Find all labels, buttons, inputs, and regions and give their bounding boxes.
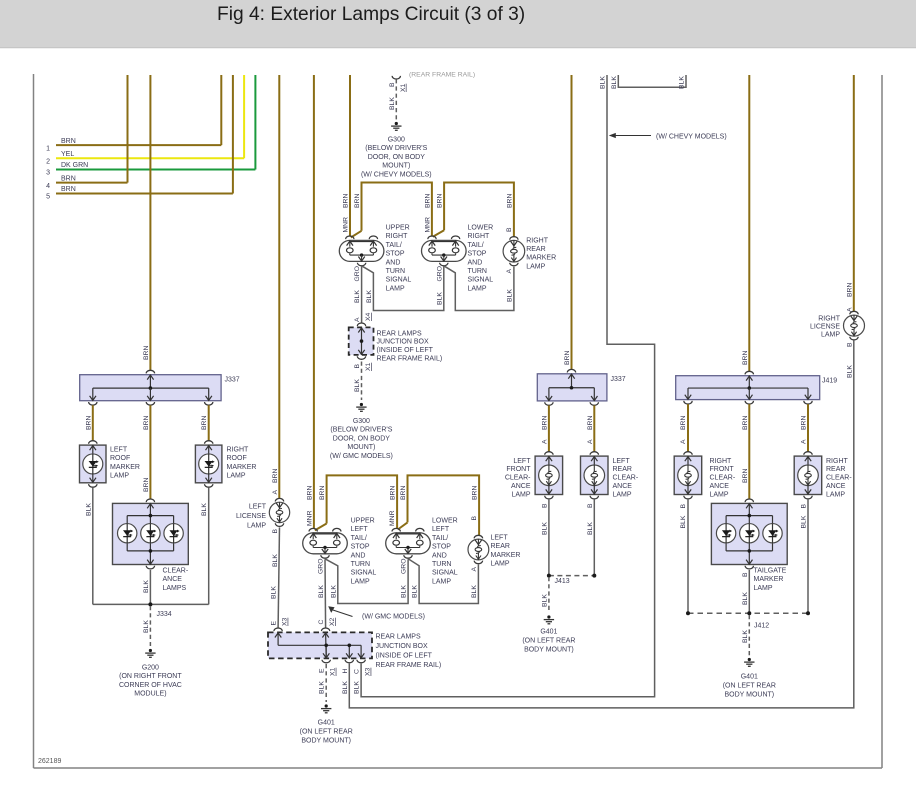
wire BLK dashed J413 to G401	[548, 577, 550, 613]
tail lamp upper right	[339, 240, 384, 261]
svg-text:TURN: TURN	[386, 268, 405, 275]
svg-text:H: H	[342, 669, 349, 674]
svg-text:BRN: BRN	[472, 486, 479, 500]
svg-text:BRN: BRN	[680, 416, 687, 430]
svg-text:STOP: STOP	[432, 544, 451, 551]
svg-text:BRN: BRN	[506, 194, 513, 208]
wire BRN jumper bracket upper-to-lower right tail lamp	[362, 183, 432, 237]
svg-text:LICENSE: LICENSE	[810, 324, 840, 331]
svg-text:REAR LAMPS: REAR LAMPS	[376, 634, 421, 641]
svg-text:J337: J337	[611, 376, 626, 383]
svg-text:B: B	[389, 82, 396, 87]
svg-text:A: A	[680, 439, 687, 444]
svg-text:B: B	[354, 364, 361, 369]
svg-text:LEFT: LEFT	[491, 535, 509, 542]
svg-text:G401: G401	[318, 720, 335, 727]
svg-text:MNR: MNR	[306, 510, 313, 526]
svg-text:BLK: BLK	[318, 585, 325, 598]
tailgate marker lamp block	[711, 503, 787, 564]
svg-text:BRN: BRN	[424, 194, 431, 208]
svg-text:MOUNT): MOUNT)	[382, 163, 410, 170]
right front clearance lamp	[674, 456, 702, 494]
wire BRN trunk to upper right tail lamp	[349, 75, 351, 237]
svg-text:BLK: BLK	[342, 681, 349, 694]
svg-text:BRN: BRN	[272, 469, 279, 483]
svg-text:STOP: STOP	[468, 251, 487, 258]
wire BRN jumper bracket upper-to-lower left tail lamp	[327, 475, 398, 528]
svg-text:BLK: BLK	[801, 515, 808, 528]
svg-text:BLK: BLK	[389, 97, 396, 110]
svg-text:BLK: BLK	[611, 76, 618, 89]
svg-text:TURN: TURN	[351, 561, 370, 568]
wire BRN trunk to left license lamp	[278, 75, 280, 499]
svg-text:LEFT: LEFT	[432, 526, 450, 533]
svg-text:BRN: BRN	[354, 194, 361, 208]
svg-text:B: B	[801, 504, 808, 509]
svg-text:TAIL/: TAIL/	[351, 535, 367, 542]
svg-text:B: B	[506, 227, 513, 232]
svg-text:REAR: REAR	[526, 246, 545, 253]
svg-text:AND: AND	[351, 552, 366, 559]
svg-text:BLK: BLK	[143, 620, 150, 633]
svg-text:BRN: BRN	[541, 416, 548, 430]
svg-text:B: B	[471, 516, 478, 521]
svg-text:BLK: BLK	[401, 585, 408, 598]
svg-text:LEFT: LEFT	[249, 504, 267, 511]
svg-text:RIGHT: RIGHT	[468, 233, 491, 240]
svg-text:RIGHT: RIGHT	[818, 316, 841, 323]
svg-text:BRN: BRN	[61, 138, 76, 145]
svg-text:SIGNAL: SIGNAL	[351, 570, 377, 577]
wire BLK tailgate block to J412	[748, 570, 750, 613]
junction J412 dashed bus	[688, 612, 808, 614]
clearance lamps block	[113, 503, 189, 564]
svg-text:TURN: TURN	[432, 561, 451, 568]
junction box rear lamps gmc	[274, 628, 282, 631]
wire BLK jumper lower left lamp to marker ground	[408, 559, 478, 604]
svg-text:B: B	[272, 529, 279, 534]
svg-text:FRONT: FRONT	[506, 466, 531, 473]
svg-text:BRN: BRN	[390, 486, 397, 500]
svg-text:(W/ GMC MODELS): (W/ GMC MODELS)	[330, 453, 393, 460]
svg-text:B: B	[846, 342, 853, 347]
svg-text:BODY MOUNT): BODY MOUNT)	[301, 738, 351, 745]
svg-text:LAMP: LAMP	[710, 491, 729, 498]
svg-text:ANCE: ANCE	[511, 483, 531, 490]
right license lamp	[844, 315, 865, 336]
svg-text:STOP: STOP	[386, 251, 405, 258]
svg-text:CLEAR-: CLEAR-	[710, 475, 736, 482]
svg-text:TAIL/: TAIL/	[468, 242, 484, 249]
svg-text:G300: G300	[388, 137, 405, 144]
svg-text:DOOR, ON BODY: DOOR, ON BODY	[368, 154, 426, 161]
tail lamp lower right	[422, 240, 467, 261]
ground G401 left	[547, 615, 550, 618]
svg-text:MODULE): MODULE)	[134, 691, 166, 698]
svg-text:GRO: GRO	[401, 559, 408, 574]
svg-text:BRN: BRN	[742, 351, 749, 365]
svg-text:MARKER: MARKER	[491, 552, 521, 559]
svg-text:BRN: BRN	[61, 186, 76, 193]
wire BLK chevy ground riser (junction box C to top)	[361, 75, 654, 697]
svg-text:LAMP: LAMP	[351, 578, 370, 585]
svg-text:(W/ CHEVY MODELS): (W/ CHEVY MODELS)	[656, 133, 727, 140]
ground G200	[149, 649, 152, 652]
svg-text:REAR FRAME RAIL): REAR FRAME RAIL)	[377, 356, 443, 363]
svg-text:BLK: BLK	[680, 515, 687, 528]
wire BRN trunk to J419	[748, 75, 750, 372]
svg-text:LAMP: LAMP	[247, 523, 266, 530]
svg-text:TAIL/: TAIL/	[386, 242, 402, 249]
svg-text:LEFT: LEFT	[351, 526, 369, 533]
ground G401 right	[748, 658, 751, 661]
ground G300 gmc	[360, 403, 363, 406]
svg-text:BLK: BLK	[85, 503, 92, 516]
svg-text:(ON RIGHT FRONT: (ON RIGHT FRONT	[119, 673, 182, 680]
svg-text:BRN: BRN	[742, 469, 749, 483]
svg-text:ROOF: ROOF	[110, 455, 130, 462]
diagram border frame	[33, 74, 35, 768]
wire BLK jumper upper-to-lower left lamp ground	[325, 559, 408, 604]
right roof marker lamp	[195, 445, 222, 483]
svg-text:REAR: REAR	[826, 466, 845, 473]
svg-text:Fig 4: Exterior Lamps Circuit: Fig 4: Exterior Lamps Circuit (3 of 3)	[217, 4, 525, 25]
svg-text:BRN: BRN	[587, 416, 594, 430]
junction box rear lamps chevy	[357, 323, 365, 326]
svg-text:BRN: BRN	[143, 478, 150, 492]
w/ chevy models note arrow	[609, 133, 616, 138]
wire pin 1 BRN horizontal+vertical	[56, 144, 221, 146]
svg-text:LEFT: LEFT	[613, 458, 631, 465]
svg-text:BLK: BLK	[600, 76, 607, 89]
wires BLK clearance lamps to J413	[548, 499, 550, 576]
svg-text:BLK: BLK	[679, 76, 686, 89]
junction J334 bus	[93, 603, 209, 605]
splice J337 middle	[537, 374, 607, 401]
svg-text:RIGHT: RIGHT	[386, 233, 409, 240]
svg-text:BRN: BRN	[143, 346, 150, 360]
wires BRN J337 outputs	[92, 405, 94, 441]
svg-text:G200: G200	[142, 665, 159, 672]
svg-text:BRN: BRN	[742, 416, 749, 430]
wire BRN trunk to J337 left	[149, 75, 151, 370]
wire pin 3 DK GRN horizontal+vertical	[56, 169, 255, 171]
svg-text:MARKER: MARKER	[754, 576, 784, 583]
svg-text:AND: AND	[386, 259, 401, 266]
svg-text:LAMP: LAMP	[227, 473, 246, 480]
svg-text:BRN: BRN	[400, 486, 407, 500]
wire BLK jumper lower lamp to marker ground	[444, 266, 514, 311]
svg-text:LEFT: LEFT	[513, 458, 531, 465]
svg-text:J334: J334	[157, 611, 172, 618]
svg-text:C: C	[354, 669, 361, 674]
svg-text:G300: G300	[353, 418, 370, 425]
left rear clearance lamp	[581, 456, 609, 494]
svg-text:MARKER: MARKER	[110, 464, 140, 471]
svg-text:A: A	[541, 439, 548, 444]
svg-text:RIGHT: RIGHT	[826, 458, 849, 465]
svg-text:(REAR FRAME RAIL): (REAR FRAME RAIL)	[409, 72, 475, 79]
svg-text:C: C	[318, 620, 325, 625]
svg-text:BODY MOUNT): BODY MOUNT)	[524, 647, 574, 654]
tail lamp lower left	[386, 533, 431, 554]
svg-text:BLK: BLK	[330, 585, 337, 598]
svg-text:CLEAR-: CLEAR-	[163, 568, 189, 575]
svg-text:BLK: BLK	[354, 379, 361, 392]
svg-text:LOWER: LOWER	[468, 225, 494, 232]
svg-text:REAR: REAR	[613, 466, 632, 473]
svg-text:A: A	[272, 490, 279, 495]
wire pin 2 YEL horizontal+vertical	[56, 157, 244, 159]
svg-text:TURN: TURN	[468, 268, 487, 275]
svg-text:A: A	[801, 439, 808, 444]
wire pin 5 BRN horizontal+vertical	[56, 193, 233, 195]
svg-text:X2: X2	[329, 617, 336, 626]
svg-text:CLEAR-: CLEAR-	[505, 475, 531, 482]
svg-text:BRN: BRN	[143, 416, 150, 430]
svg-text:YEL: YEL	[61, 151, 74, 158]
svg-text:G401: G401	[540, 629, 557, 636]
left roof marker lamp	[80, 445, 107, 483]
svg-text:X4: X4	[365, 312, 372, 321]
svg-text:BRN: BRN	[306, 486, 313, 500]
svg-text:3: 3	[46, 170, 50, 177]
wire pin 4 BRN horizontal+vertical	[56, 182, 128, 184]
svg-text:LAMPS: LAMPS	[163, 585, 187, 592]
svg-text:(W/ CHEVY MODELS): (W/ CHEVY MODELS)	[361, 171, 432, 178]
svg-text:X3: X3	[282, 617, 289, 626]
svg-text:ROOF: ROOF	[227, 455, 247, 462]
svg-text:MOUNT): MOUNT)	[347, 444, 375, 451]
svg-text:TAILGATE: TAILGATE	[754, 568, 787, 575]
svg-text:LEFT: LEFT	[110, 447, 128, 454]
svg-text:J419: J419	[822, 378, 837, 385]
svg-text:ANCE: ANCE	[163, 576, 183, 583]
svg-text:X1: X1	[330, 667, 337, 676]
left rear marker lamp	[468, 539, 489, 560]
svg-text:(W/ GMC MODELS): (W/ GMC MODELS)	[362, 613, 425, 620]
title bar	[0, 0, 916, 48]
wire BRN trunk to J337 middle	[571, 75, 573, 370]
wire BRN jumper bracket lower tail lamp to right rear marker	[444, 183, 514, 238]
svg-text:CORNER OF HVAC: CORNER OF HVAC	[119, 682, 182, 689]
svg-text:LAMP: LAMP	[468, 285, 487, 292]
svg-text:ANCE: ANCE	[826, 483, 846, 490]
svg-text:SIGNAL: SIGNAL	[468, 277, 494, 284]
right rear clearance lamp	[794, 456, 822, 494]
wire BRN trunk to upper left tail lamp	[313, 75, 315, 529]
left front clearance lamp	[535, 456, 563, 494]
svg-text:JUNCTION BOX: JUNCTION BOX	[377, 339, 429, 346]
wire BLK pin H to right license ground	[349, 341, 854, 708]
svg-text:B: B	[680, 504, 687, 509]
svg-text:AND: AND	[468, 259, 483, 266]
svg-text:TAIL/: TAIL/	[432, 535, 448, 542]
wire BRN jumper bracket lower left lamp to left rear marker	[408, 475, 480, 535]
connector X1 to rear frame rail (cut)	[392, 76, 400, 79]
svg-text:RIGHT: RIGHT	[227, 447, 250, 454]
svg-text:JUNCTION BOX: JUNCTION BOX	[376, 643, 428, 650]
svg-text:X1: X1	[365, 362, 372, 371]
svg-text:SIGNAL: SIGNAL	[432, 570, 458, 577]
svg-text:CLEAR-: CLEAR-	[613, 475, 639, 482]
svg-text:LOWER: LOWER	[432, 518, 458, 525]
junction J413 dashed bus	[549, 575, 594, 577]
wires BLK roof markers down to J334 bus	[92, 488, 94, 605]
wire BLK upper left lamp ground to junction box C/X2	[324, 559, 327, 627]
svg-text:DK GRN: DK GRN	[61, 162, 88, 169]
svg-text:BLK: BLK	[506, 289, 513, 302]
svg-text:BLK: BLK	[412, 585, 419, 598]
svg-text:X3: X3	[365, 667, 372, 676]
svg-text:MARKER: MARKER	[526, 255, 556, 262]
svg-text:BRN: BRN	[343, 194, 350, 208]
svg-text:BLK: BLK	[541, 522, 548, 535]
wire BRN trunk to right license lamp	[853, 75, 855, 312]
svg-text:SIGNAL: SIGNAL	[386, 277, 412, 284]
tail lamp upper left	[303, 533, 348, 554]
wire BLK clearance to J334	[149, 570, 151, 605]
wire BLK upper right lamp ground to junction box X4	[361, 266, 363, 323]
svg-text:LAMP: LAMP	[821, 332, 840, 339]
splice J337 left	[80, 375, 221, 401]
svg-text:5: 5	[46, 194, 50, 201]
svg-text:J413: J413	[555, 578, 570, 585]
svg-text:J337: J337	[225, 377, 240, 384]
svg-text:(ON LEFT REAR: (ON LEFT REAR	[522, 638, 575, 645]
svg-text:BRN: BRN	[319, 486, 326, 500]
svg-text:BRN: BRN	[437, 194, 444, 208]
svg-text:(ON LEFT REAR: (ON LEFT REAR	[723, 683, 776, 690]
svg-text:BLK: BLK	[319, 681, 326, 694]
svg-text:BLK: BLK	[271, 586, 278, 599]
wire BLK jumper upper-to-lower lamp ground	[362, 266, 444, 311]
svg-text:REAR: REAR	[491, 543, 510, 550]
svg-text:LAMP: LAMP	[526, 263, 545, 270]
svg-text:UPPER: UPPER	[351, 518, 375, 525]
svg-text:2: 2	[46, 159, 50, 166]
wires BRN J419 outputs	[687, 404, 689, 452]
svg-text:BLK: BLK	[541, 594, 548, 607]
right rear marker lamp	[503, 240, 525, 262]
svg-text:LAMP: LAMP	[491, 561, 510, 568]
svg-text:1: 1	[46, 145, 50, 152]
svg-text:A: A	[587, 439, 594, 444]
svg-text:BLK: BLK	[354, 681, 361, 694]
svg-text:262189: 262189	[38, 758, 61, 765]
svg-text:BRN: BRN	[61, 175, 76, 182]
svg-text:DOOR, ON BODY: DOOR, ON BODY	[333, 435, 391, 442]
svg-text:B: B	[742, 572, 749, 577]
svg-text:BLK: BLK	[366, 290, 373, 303]
ground G300 chevy	[395, 122, 398, 125]
svg-text:LAMP: LAMP	[386, 285, 405, 292]
svg-text:BRN: BRN	[201, 416, 208, 430]
svg-text:E: E	[319, 668, 326, 673]
svg-text:A: A	[506, 269, 513, 274]
svg-text:B: B	[541, 503, 548, 508]
svg-text:MNR: MNR	[389, 510, 396, 526]
svg-text:UPPER: UPPER	[386, 225, 410, 232]
wires BRN J337 mid outputs	[548, 405, 550, 452]
top stub wires BLK with jumper bracket	[618, 75, 686, 87]
svg-text:BLK: BLK	[436, 292, 443, 305]
svg-text:B: B	[587, 503, 594, 508]
svg-text:(BELOW DRIVER'S: (BELOW DRIVER'S	[365, 145, 427, 152]
svg-text:BLK: BLK	[201, 503, 208, 516]
svg-text:X1: X1	[400, 83, 407, 92]
svg-text:(BELOW DRIVER'S: (BELOW DRIVER'S	[330, 427, 392, 434]
svg-text:4: 4	[46, 183, 50, 190]
w/ gmc models note arrow	[328, 606, 334, 613]
svg-text:BRN: BRN	[564, 351, 571, 365]
svg-text:LICENSE: LICENSE	[236, 513, 266, 520]
splice J419	[676, 376, 820, 400]
wire BLK dashed to G300	[395, 79, 397, 119]
svg-text:BLK: BLK	[742, 630, 749, 643]
svg-text:BODY MOUNT): BODY MOUNT)	[724, 692, 774, 699]
svg-text:RIGHT: RIGHT	[526, 237, 549, 244]
svg-text:GRO: GRO	[354, 266, 361, 281]
svg-text:BLK: BLK	[143, 580, 150, 593]
ground G401 bottom	[325, 704, 328, 707]
svg-text:LAMP: LAMP	[110, 473, 129, 480]
svg-text:BLK: BLK	[354, 290, 361, 303]
svg-text:LAMP: LAMP	[826, 491, 845, 498]
svg-text:BLK: BLK	[587, 522, 594, 535]
svg-text:BLK: BLK	[742, 592, 749, 605]
svg-text:BRN: BRN	[846, 283, 853, 297]
wire BLK dashed pin E to G401	[325, 664, 327, 702]
svg-text:LAMP: LAMP	[432, 578, 451, 585]
svg-text:J412: J412	[754, 623, 769, 630]
svg-text:GRO: GRO	[436, 266, 443, 281]
svg-text:(ON LEFT REAR: (ON LEFT REAR	[300, 729, 353, 736]
svg-text:BRN: BRN	[85, 416, 92, 430]
svg-text:G401: G401	[741, 674, 758, 681]
svg-text:MARKER: MARKER	[227, 464, 257, 471]
svg-text:ANCE: ANCE	[613, 483, 633, 490]
svg-text:MNR: MNR	[342, 217, 349, 233]
svg-text:REAR FRAME RAIL): REAR FRAME RAIL)	[376, 662, 442, 669]
wires BLK right clearance lamps to J412	[687, 499, 689, 613]
wire BLK license to junction box E/X3	[278, 527, 279, 627]
svg-text:GRO: GRO	[318, 559, 325, 574]
left license lamp	[269, 502, 289, 522]
svg-text:CLEAR-: CLEAR-	[826, 475, 852, 482]
svg-text:E: E	[271, 621, 278, 626]
svg-text:BRN: BRN	[801, 416, 808, 430]
svg-text:REAR LAMPS: REAR LAMPS	[377, 330, 422, 337]
svg-text:ANCE: ANCE	[710, 483, 730, 490]
svg-text:AND: AND	[432, 552, 447, 559]
svg-text:RIGHT: RIGHT	[710, 458, 733, 465]
svg-text:BLK: BLK	[846, 365, 853, 378]
wire BLK dashed J334 to G200	[149, 606, 151, 646]
svg-text:(INSIDE OF LEFT: (INSIDE OF LEFT	[377, 347, 434, 354]
svg-text:LAMP: LAMP	[754, 585, 773, 592]
svg-text:BLK: BLK	[272, 554, 279, 567]
svg-text:(INSIDE OF LEFT: (INSIDE OF LEFT	[376, 653, 433, 660]
svg-text:STOP: STOP	[351, 544, 370, 551]
wire BLK dashed J412 to G401	[748, 615, 750, 656]
svg-text:BLK: BLK	[471, 585, 478, 598]
svg-text:LAMP: LAMP	[613, 491, 632, 498]
wire BLK dashed to G300 gmc	[361, 362, 363, 401]
svg-text:A: A	[471, 567, 478, 572]
svg-text:LAMP: LAMP	[511, 491, 530, 498]
svg-text:FRONT: FRONT	[710, 466, 735, 473]
